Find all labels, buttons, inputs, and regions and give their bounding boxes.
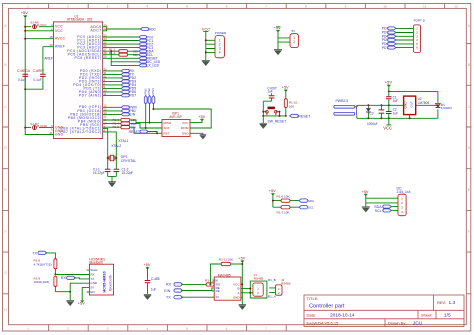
crystal wires XTAL1/XTAL2	[103, 128, 117, 158]
svg-text:GND: GND	[404, 101, 408, 109]
wire TX node to module RX	[55, 274, 86, 276]
svg-text:5: 5	[186, 5, 188, 9]
svg-text:PW3: PW3	[151, 88, 155, 95]
svg-text:SW_RESET: SW_RESET	[268, 120, 287, 124]
resistor R1-11 10K	[219, 257, 242, 265]
svg-text:+5V: +5V	[274, 25, 282, 30]
wire regulator gnd tab	[409, 115, 411, 119]
wire crystal caps to ground	[108, 176, 117, 181]
vertical net flag LED1	[143, 88, 147, 104]
capacitor C1-2 15-22pF	[114, 158, 134, 176]
junction regulator output	[437, 104, 439, 106]
U1 right pin numbers	[104, 24, 108, 133]
wire RESET to ISP	[148, 132, 157, 134]
capacitor C-AREF 0.1uF	[33, 69, 46, 82]
wire PD2	[103, 77, 121, 79]
svg-text:Date:: Date:	[307, 312, 317, 317]
svg-text:A: A	[468, 24, 471, 28]
svg-text:1uF: 1uF	[267, 90, 273, 94]
svg-text:15-22pF: 15-22pF	[122, 171, 134, 175]
junction J1 wires	[249, 288, 251, 290]
svg-text:EN: EN	[90, 290, 94, 294]
svg-text:GND: GND	[90, 281, 98, 285]
resistor R1-6 10K	[277, 195, 291, 203]
capacitor C-485 1uF	[145, 277, 160, 294]
svg-text:R1-2: R1-2	[109, 51, 116, 55]
net flag SDA	[139, 50, 155, 54]
svg-text:VCC: VCC	[202, 26, 211, 31]
ground (bluetooth)	[66, 301, 74, 306]
resistor R1-9 10K	[34, 276, 57, 291]
svg-text:7: 7	[265, 5, 267, 9]
wire TX to R1-8	[46, 253, 56, 259]
wire PD1 TX	[103, 73, 121, 75]
wire PC3	[103, 47, 139, 49]
svg-text:GND: GND	[233, 295, 241, 299]
+5V flag (5V conn)	[274, 25, 282, 32]
ground (MAX485)	[239, 305, 247, 310]
wire PB2	[103, 113, 121, 115]
svg-text:5V: 5V	[292, 29, 296, 33]
wire supply input	[357, 104, 403, 106]
svg-text:1uF: 1uF	[393, 111, 399, 115]
net flag PD4 (port)	[382, 35, 396, 39]
svg-text:10KΩ(1Ω3): 10KΩ(1Ω3)	[34, 280, 50, 284]
wire I2C pin4	[391, 209, 398, 211]
svg-text:VCC: VCC	[383, 126, 392, 131]
wire A to J1	[241, 292, 250, 294]
svg-text:10K: 10K	[284, 195, 290, 199]
resistor R1-3 10K	[113, 118, 137, 122]
net flag PC3	[139, 46, 154, 50]
svg-text:2018-10-14: 2018-10-14	[330, 312, 355, 318]
svg-text:G: G	[4, 271, 7, 275]
fuse SJ-R7 R-GND	[30, 122, 47, 130]
svg-text:+5V: +5V	[78, 302, 85, 306]
wire J2 stubs	[269, 288, 275, 293]
svg-text:GND: GND	[182, 132, 190, 136]
svg-text:Sheet:: Sheet:	[421, 312, 433, 317]
net flag TX (PD1)	[121, 73, 135, 77]
wire regulator output	[416, 104, 438, 106]
net flag RX (bluetooth)	[61, 276, 76, 280]
svg-text:2.54_1x4: 2.54_1x4	[397, 190, 411, 194]
wire ADC6/ADC7 to ADC flag	[103, 27, 141, 31]
fuse SJ-R6 R-VCC	[30, 21, 47, 29]
svg-text:SCL: SCL	[308, 206, 314, 210]
svg-text:1/5: 1/5	[444, 312, 451, 318]
svg-text:1: 1	[27, 5, 29, 9]
svg-text:RX: RX	[166, 283, 172, 287]
ground (C-485)	[144, 294, 152, 299]
+5V flag (reset)	[282, 86, 289, 99]
svg-text:E/N: E/N	[164, 289, 170, 293]
net flag PD6	[121, 90, 136, 94]
svg-text:4: 4	[219, 51, 221, 55]
svg-text:1uF: 1uF	[151, 288, 157, 292]
connector J2 RS485	[275, 278, 290, 295]
svg-text:0.1uF: 0.1uF	[18, 78, 26, 82]
svg-text:VCC: VCC	[182, 121, 189, 125]
wire I2C pin1	[366, 197, 398, 199]
svg-text:2: 2	[257, 291, 259, 295]
svg-text:1: 1	[27, 327, 29, 331]
svg-text:+5V: +5V	[362, 190, 369, 194]
svg-text:Bluetooth: Bluetooth	[108, 275, 112, 291]
regulator U2 LM7805	[404, 96, 430, 115]
svg-text:15-22pF: 15-22pF	[93, 171, 105, 175]
svg-text:PORT-D: PORT-D	[414, 19, 426, 23]
+5V flag (ISP)	[198, 115, 205, 121]
svg-text:RESET: RESET	[129, 130, 140, 134]
net flag PC1	[139, 39, 154, 43]
net flag PD3 (port)	[382, 31, 396, 35]
svg-text:MISO: MISO	[164, 121, 172, 125]
svg-text:SCK: SCK	[164, 126, 170, 130]
svg-text:4.7KΩ(KT15): 4.7KΩ(KT15)	[34, 262, 52, 266]
net flag PD6 (port)	[382, 42, 396, 46]
svg-text:1uF: 1uF	[393, 99, 399, 103]
svg-text:DI: DI	[216, 295, 219, 299]
net flag PC2	[139, 42, 154, 46]
resistor R1-4 10K	[113, 122, 137, 126]
ground (reset)	[260, 123, 268, 128]
svg-text:PC6 (RESET): PC6 (RESET)	[75, 56, 102, 60]
vertical net flag LED3	[151, 88, 155, 104]
net flag RESET	[139, 57, 158, 61]
wire RX to R1-12	[181, 283, 206, 285]
VCC power flag (supply)	[383, 118, 392, 130]
wire ISP GND	[190, 133, 203, 134]
svg-text:+5V: +5V	[269, 189, 276, 193]
wire PB0	[103, 106, 121, 108]
IC U3 MAX485	[214, 273, 241, 300]
wire +5V top rail	[389, 91, 438, 102]
svg-text:State: State	[90, 268, 97, 272]
wire POWER pins	[206, 40, 215, 52]
svg-text:6: 6	[416, 46, 418, 50]
resistor R1-2 330	[109, 51, 138, 57]
wire +5V rail to VCC pins	[25, 17, 53, 89]
svg-text:A: A	[237, 291, 239, 295]
MCU U1 ATMEGA8/328	[53, 15, 102, 139]
capacitor C1-1 15-22pF	[93, 158, 111, 176]
svg-text:6: 6	[226, 327, 228, 331]
wire module 5V	[82, 288, 87, 301]
svg-text:LX_LED: LX_LED	[147, 64, 160, 68]
net flag SCL (pullup)	[299, 206, 314, 210]
svg-text:R1_A: R1_A	[268, 294, 277, 298]
svg-text:C: C	[468, 105, 471, 109]
svg-text:3: 3	[107, 5, 109, 9]
+5V flag (I2C header)	[362, 190, 369, 207]
capacitor C2 1uF	[386, 105, 398, 118]
wire PD3	[103, 80, 121, 82]
svg-text:OUT: OUT	[410, 101, 414, 108]
junction reset nodes	[262, 111, 264, 113]
wire PC0	[103, 36, 139, 38]
wire RST row	[103, 127, 162, 133]
junction dots VCC rail	[24, 26, 26, 28]
ground (I2C header)	[362, 207, 370, 212]
net flag E/N (PB2)	[121, 113, 136, 117]
junction +5V rail	[388, 90, 390, 92]
net flag RX (485)	[166, 283, 183, 287]
+5V flag (bluetooth)	[78, 300, 85, 306]
svg-text:VCC: VCC	[55, 29, 63, 33]
svg-text:2: 2	[67, 5, 69, 9]
title block	[304, 295, 464, 327]
svg-text:1: 1	[401, 197, 403, 201]
svg-text:REV:: REV:	[437, 300, 446, 305]
U1 right pin names	[60, 25, 101, 134]
net flag PD4	[121, 83, 136, 87]
junction TX node	[54, 274, 56, 276]
net flag RESET (to ISP)	[129, 130, 149, 134]
junction caps common node	[24, 88, 26, 90]
wire module GND	[70, 283, 87, 300]
diode D1 1N4004	[436, 102, 453, 118]
+5V flag (MAX485)	[238, 256, 245, 304]
wire MAX485 VCC	[241, 283, 242, 285]
svg-text:RX: RX	[90, 273, 94, 277]
svg-text:RESET: RESET	[298, 114, 311, 118]
svg-text:PD7 (AIN1): PD7 (AIN1)	[79, 93, 102, 97]
junction supply bottom	[367, 117, 369, 119]
svg-text:10K: 10K	[284, 210, 290, 214]
svg-text:2: 2	[278, 291, 280, 295]
svg-text:10K: 10K	[289, 104, 295, 108]
VCC power flag (POWER conn)	[202, 26, 211, 60]
svg-text:9: 9	[345, 5, 347, 9]
wire GND rail down left	[25, 89, 53, 134]
wire PD7	[103, 94, 121, 96]
svg-text:B: B	[468, 63, 470, 67]
+5V flag (I2C pullups)	[269, 189, 276, 207]
wire 5V conn pin1	[278, 32, 290, 50]
net flag RESET (reset circuit)	[290, 114, 312, 118]
vertical net flag LED2	[147, 88, 151, 104]
U1 left pin names	[55, 25, 66, 137]
svg-text:TX: TX	[166, 296, 171, 300]
junction flags taps	[145, 127, 147, 129]
net flag TX (bluetooth)	[32, 251, 46, 255]
+5V flag (C-485)	[144, 263, 151, 280]
svg-text:+5V: +5V	[144, 263, 151, 267]
svg-text:POWER: POWER	[215, 31, 227, 35]
svg-text:Drawn By:: Drawn By:	[388, 320, 406, 325]
svg-text:RS485: RS485	[254, 277, 264, 281]
svg-text:XTAL1: XTAL1	[118, 139, 128, 143]
svg-text:+5V: +5V	[282, 86, 289, 90]
wire I2C_LED	[111, 51, 138, 65]
net flag PD3	[121, 80, 136, 84]
wire AREF net	[25, 47, 53, 90]
wire TX to DI	[181, 296, 214, 298]
svg-text:E/N: E/N	[130, 113, 136, 117]
svg-text:Bluetooth: Bluetooth	[89, 260, 103, 264]
svg-text:ATMEGA8A - 328: ATMEGA8A - 328	[67, 18, 92, 22]
wire SCL pullup	[273, 206, 299, 208]
capacitor C3 1000uF	[367, 105, 384, 126]
+5V flag (MCU supply)	[21, 10, 29, 17]
svg-text:R-VCC: R-VCC	[37, 23, 47, 27]
svg-text:SDA: SDA	[308, 199, 314, 203]
net flag SDA (header)	[374, 205, 391, 209]
wire R1-9 to ground rail	[55, 291, 70, 293]
svg-text:11: 11	[423, 5, 427, 9]
svg-text:PWR2.5: PWR2.5	[336, 99, 349, 103]
wire PC6 RESET	[103, 57, 139, 59]
svg-text:RX: RX	[61, 276, 67, 280]
svg-text:R1-6: R1-6	[277, 195, 284, 199]
wire PC5/SCL through R1-2	[103, 54, 139, 56]
resistor R1-8 4.7K	[34, 259, 57, 275]
wire PC2	[103, 43, 139, 45]
wire PB1	[103, 110, 121, 112]
net flag SCL (header)	[375, 209, 392, 213]
svg-text:5V: 5V	[90, 286, 94, 290]
connector PWR2.5 barrel jack	[334, 99, 357, 115]
svg-text:1N4004: 1N4004	[441, 106, 452, 110]
net flag PB1	[121, 109, 136, 113]
svg-text:JCU: JCU	[413, 320, 423, 326]
svg-text:Controller part: Controller part	[309, 304, 345, 310]
wire from vertical flag 3 to ISP MOSI loop	[153, 103, 211, 128]
svg-text:TITLE:: TITLE:	[307, 296, 319, 301]
svg-text:12: 12	[454, 5, 458, 9]
wire E/N to RE/DE	[181, 288, 214, 291]
resistor R1-10 10K	[284, 99, 297, 116]
wire PD5	[103, 87, 121, 89]
svg-text:D: D	[4, 146, 7, 150]
svg-text:ADC: ADC	[149, 27, 157, 31]
svg-text:F: F	[5, 230, 7, 234]
pushbutton SW_RESET	[266, 107, 287, 124]
svg-text:C3: C3	[370, 111, 374, 115]
svg-text:AVR-ISP: AVR-ISP	[169, 115, 182, 119]
svg-text:2: 2	[293, 40, 295, 44]
diode input protection	[366, 105, 371, 118]
resistor R1-7 10K	[277, 206, 291, 215]
svg-text:D: D	[468, 146, 471, 150]
junction RO node	[209, 283, 211, 285]
net flag PD5	[121, 87, 136, 91]
net flag LX_LED	[139, 64, 160, 68]
svg-text:R1-11: R1-11	[219, 257, 227, 261]
svg-text:C-MEGA: C-MEGA	[17, 69, 31, 73]
svg-text:E: E	[4, 188, 6, 192]
wire reset to ground	[262, 116, 264, 123]
svg-text:330: 330	[133, 53, 138, 57]
svg-text:HC05-HM10: HC05-HM10	[102, 271, 106, 292]
svg-text:+5V: +5V	[385, 80, 393, 85]
svg-text:+5V: +5V	[198, 115, 205, 119]
svg-text:4: 4	[146, 5, 148, 9]
svg-text:AREF: AREF	[55, 45, 65, 49]
svg-text:B: B	[4, 63, 6, 67]
wire PD0 RX	[103, 70, 121, 72]
svg-text:H: H	[4, 308, 7, 312]
connector J1 RS485	[253, 273, 264, 296]
ground (crystal)	[108, 182, 116, 187]
wire B to J1	[241, 281, 267, 298]
svg-text:XTAL2: XTAL2	[111, 144, 121, 148]
net flag PD2 (port)	[382, 27, 396, 31]
net flag ADC	[140, 27, 156, 31]
svg-text:3: 3	[107, 327, 109, 331]
junction SDA tap	[110, 50, 112, 52]
U1 left pin numbers	[49, 23, 53, 135]
svg-text:4: 4	[401, 210, 403, 214]
svg-text:2: 2	[401, 201, 403, 205]
svg-text:1: 1	[257, 286, 259, 290]
wire SDA pullup	[273, 200, 299, 202]
wire MISO row	[103, 120, 162, 123]
svg-text:RST: RST	[164, 132, 170, 136]
svg-text:C: C	[4, 105, 7, 109]
ground (5V conn)	[274, 50, 282, 55]
wire I2C pin3	[391, 206, 398, 208]
net flag RX (PD0)	[121, 69, 135, 73]
svg-text:5: 5	[186, 327, 188, 331]
wires PORT-D	[396, 28, 413, 47]
net flag TX (485)	[166, 296, 183, 300]
svg-text:1.3: 1.3	[449, 300, 456, 306]
ground (POWER)	[202, 60, 210, 65]
svg-text:3: 3	[401, 206, 403, 210]
svg-text:TX: TX	[32, 251, 37, 255]
wire PD4	[103, 84, 121, 86]
svg-text:2: 2	[67, 327, 69, 331]
svg-text:E: E	[468, 188, 470, 192]
+5V flag (supply out)	[385, 80, 393, 92]
net flag SDA (pullup)	[299, 199, 314, 203]
ground (ISP)	[200, 135, 206, 139]
connector PORT-D	[413, 19, 425, 53]
svg-text:A: A	[4, 24, 7, 28]
svg-text:R1-7: R1-7	[277, 210, 284, 214]
svg-text:10K: 10K	[228, 257, 234, 261]
net flag PD2	[121, 76, 136, 80]
wire MAX485 GND	[241, 296, 242, 298]
net flag PWM0 (PB0)	[121, 106, 137, 110]
svg-text:CRYSTAL: CRYSTAL	[121, 159, 136, 163]
svg-text:DE: DE	[216, 289, 220, 293]
wire reset loop	[263, 101, 286, 116]
svg-text:AREF: AREF	[44, 56, 53, 60]
net flag PD7 (port)	[382, 46, 396, 50]
svg-text:F: F	[468, 230, 470, 234]
svg-text:R-GND: R-GND	[37, 124, 48, 128]
net flag PD7	[121, 94, 136, 98]
net flag SCL	[139, 53, 154, 57]
wire R1-11 tap	[210, 264, 221, 284]
wire PC4/SDA through R1-1	[103, 50, 139, 52]
svg-text:1000uF: 1000uF	[367, 122, 378, 126]
svg-text:7: 7	[265, 327, 267, 331]
svg-text:R1_B: R1_B	[268, 278, 276, 282]
wire I2C pin2	[366, 202, 398, 204]
svg-text:RS485: RS485	[281, 281, 291, 285]
svg-text:6: 6	[226, 5, 228, 9]
wire PC1	[103, 40, 139, 42]
wire ISP VCC	[190, 119, 202, 122]
svg-text:ADC7: ADC7	[90, 29, 101, 33]
junction supply input	[367, 104, 369, 106]
svg-text:0.1uF: 0.1uF	[34, 78, 42, 82]
connector 5V	[290, 29, 298, 48]
